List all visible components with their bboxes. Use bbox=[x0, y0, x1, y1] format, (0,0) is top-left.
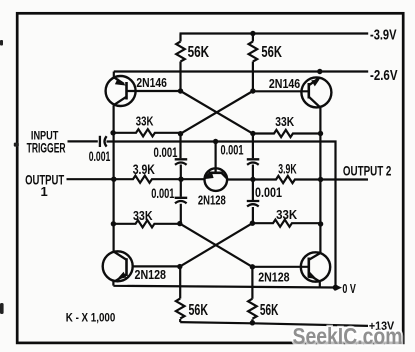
svg-text:2N146: 2N146 bbox=[269, 76, 300, 91]
svg-text:0.001: 0.001 bbox=[89, 149, 111, 164]
svg-text:2N128: 2N128 bbox=[198, 193, 226, 208]
svg-text:-3.9V: -3.9V bbox=[370, 27, 397, 44]
svg-text:0.001: 0.001 bbox=[255, 185, 282, 200]
svg-text:2N146: 2N146 bbox=[136, 75, 167, 90]
svg-text:56K: 56K bbox=[189, 302, 209, 319]
svg-text:2N128: 2N128 bbox=[258, 269, 289, 284]
svg-text:TRIGGER: TRIGGER bbox=[27, 141, 66, 156]
svg-text:56K: 56K bbox=[261, 44, 282, 61]
svg-text:0.001: 0.001 bbox=[154, 145, 178, 160]
svg-text:3.9K: 3.9K bbox=[278, 162, 296, 177]
svg-text:3.9K: 3.9K bbox=[133, 162, 155, 177]
svg-text:SeekIC.com: SeekIC.com bbox=[293, 323, 403, 349]
svg-text:0 V: 0 V bbox=[342, 282, 356, 296]
svg-text:0.001: 0.001 bbox=[221, 142, 244, 157]
svg-text:33K: 33K bbox=[275, 115, 294, 129]
svg-text:0.001: 0.001 bbox=[151, 186, 175, 201]
svg-text:OUTPUT 2: OUTPUT 2 bbox=[343, 164, 392, 179]
svg-text:33K: 33K bbox=[276, 207, 298, 222]
svg-text:K - X 1,000: K - X 1,000 bbox=[66, 311, 116, 325]
svg-text:2N128: 2N128 bbox=[135, 267, 167, 282]
svg-text:33K: 33K bbox=[136, 115, 154, 129]
svg-text:33K: 33K bbox=[133, 208, 153, 223]
svg-text:1: 1 bbox=[41, 184, 48, 199]
svg-text:-2.6V: -2.6V bbox=[370, 67, 398, 84]
svg-text:56K: 56K bbox=[188, 44, 210, 61]
svg-text:56K: 56K bbox=[260, 302, 279, 319]
